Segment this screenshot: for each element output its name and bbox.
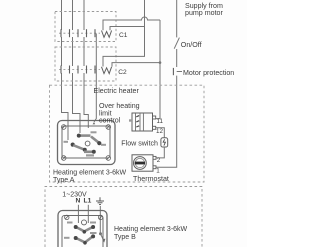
thermostat dial slot <box>135 162 145 165</box>
contactor C1 dashed enclosure <box>55 12 116 42</box>
element A terminal mid <box>83 148 87 152</box>
element B chevron 2 left bar <box>76 238 85 242</box>
element B tiny label smudges <box>64 222 97 239</box>
wire supply from pump motor <box>176 0 178 37</box>
motor protection contact bar <box>172 68 174 75</box>
element A terminal top-left <box>77 134 81 138</box>
wire phase L2 lower <box>73 73 81 133</box>
element A link diagonal left <box>73 145 84 149</box>
heating element B inner box <box>62 216 103 247</box>
limit control terminal 12 stub <box>153 126 156 129</box>
svg-text:L1: L1 <box>84 197 92 204</box>
element A tiny label smudges <box>64 131 107 156</box>
earth arrow to box <box>101 234 104 240</box>
motor protection dash <box>177 71 182 73</box>
svg-text:Electric heater: Electric heater <box>94 87 140 95</box>
earth junction dot <box>99 232 102 235</box>
wire phase L3 lower <box>84 73 88 128</box>
contactor C1 contact bars <box>61 29 95 37</box>
element A terminal left <box>71 143 75 147</box>
limit control inner marks <box>136 116 139 127</box>
contactor C1 linkage dashed line <box>59 32 100 34</box>
svg-text:Motor protection: Motor protection <box>183 69 234 77</box>
wire phase L3 mid <box>83 37 85 66</box>
contactor C2 dashed enclosure <box>55 47 116 81</box>
junction dot control riser <box>159 61 162 64</box>
wire L1 into element B <box>87 205 89 223</box>
svg-text:control: control <box>99 117 121 125</box>
thermostat terminal 1 stub <box>153 166 156 169</box>
switch On/Off blade <box>174 38 179 49</box>
wire motor protection to thermostat T1 <box>156 76 177 168</box>
wire C1 coil right branch <box>110 27 145 31</box>
element B chevron 1 right bar <box>84 227 93 231</box>
limit control capillary stub <box>129 119 132 121</box>
element B chevron1 terminals <box>74 225 78 229</box>
svg-text:On/Off: On/Off <box>181 41 202 49</box>
wire arrow into element A <box>93 122 96 124</box>
heating element A outer box <box>58 121 116 165</box>
svg-text:Type A: Type A <box>53 177 75 184</box>
contactor C2 coil W <box>102 67 112 74</box>
screw element B top-left <box>65 215 69 219</box>
wire fourth pole output <box>94 34 96 123</box>
wire C1 coil left loop with hop <box>103 17 160 30</box>
wire earth into element B <box>99 206 101 234</box>
wire terminal 12 to flow switch <box>156 128 165 138</box>
svg-text:Type B: Type B <box>114 234 136 241</box>
thermostat dial inner <box>135 158 144 167</box>
bottom section dashed enclosure <box>45 187 202 247</box>
element A terminal bottom-right <box>92 150 96 154</box>
screw element B top-right <box>98 215 102 219</box>
wire phase L1 lower <box>62 73 69 140</box>
svg-text:Heating element 3-6kW: Heating element 3-6kW <box>114 226 188 233</box>
svg-text:Heating element 3-6kW: Heating element 3-6kW <box>53 169 127 176</box>
electric heater dashed enclosure <box>50 85 205 182</box>
wire phase L3 top <box>83 0 85 30</box>
wire N into element B <box>77 205 79 223</box>
thermostat dial outer <box>134 157 147 170</box>
element A link diagonal right <box>91 137 99 143</box>
contactor C2 contact bars <box>61 66 95 74</box>
element A center screw <box>85 141 90 146</box>
svg-text:1: 1 <box>156 168 160 175</box>
wire coil feed from top <box>103 0 145 67</box>
over heating limit control body <box>132 113 153 131</box>
thermostat terminal 2 stub <box>153 156 156 159</box>
element B chevron 2 right bar <box>85 236 93 242</box>
svg-text:11: 11 <box>157 118 164 125</box>
element B chevron2 terminals <box>74 236 78 240</box>
svg-text:2: 2 <box>157 157 161 164</box>
wire phase L1 top <box>61 0 63 30</box>
screw element A bottom-right <box>106 156 111 161</box>
svg-text:12: 12 <box>156 128 163 135</box>
wire control riser to terminal 11 <box>156 20 160 119</box>
screw element A top-left <box>61 125 66 130</box>
svg-text:pump motor: pump motor <box>185 9 223 17</box>
wire phase L1 mid <box>61 37 63 66</box>
wire flow switch to thermostat T2 <box>156 147 165 158</box>
wire between switch and motor protection <box>176 49 178 67</box>
element A link top horizontal <box>80 134 91 137</box>
flow switch body <box>161 138 168 147</box>
heating element B outer box <box>58 211 107 247</box>
limit control inner stripes <box>136 113 144 131</box>
earth symbol <box>96 197 104 204</box>
svg-text:C1: C1 <box>119 32 128 39</box>
element A terminal right <box>97 141 101 145</box>
flow switch glyph <box>163 139 165 145</box>
wire phase L2 top <box>72 0 74 30</box>
limit control terminal 11 stub <box>153 116 156 119</box>
contactor C1 coil W <box>102 31 112 38</box>
screw element A top-right <box>106 125 111 130</box>
screw element A bottom-left <box>61 156 66 161</box>
svg-text:Flow switch: Flow switch <box>121 140 158 148</box>
heating element A inner box <box>62 126 110 158</box>
svg-text:N: N <box>76 197 81 204</box>
contactor C2 linkage dashed line <box>59 69 100 71</box>
wire C2 coil right branch <box>112 63 160 67</box>
element A link bottom horizontal <box>84 151 93 154</box>
svg-text:Thermostat: Thermostat <box>133 175 169 183</box>
wire phase L2 mid <box>72 37 74 66</box>
svg-text:C2: C2 <box>118 69 127 76</box>
thermostat body <box>132 155 153 171</box>
element B chevron 1 left bar <box>76 227 84 231</box>
element B center hole <box>82 220 87 225</box>
